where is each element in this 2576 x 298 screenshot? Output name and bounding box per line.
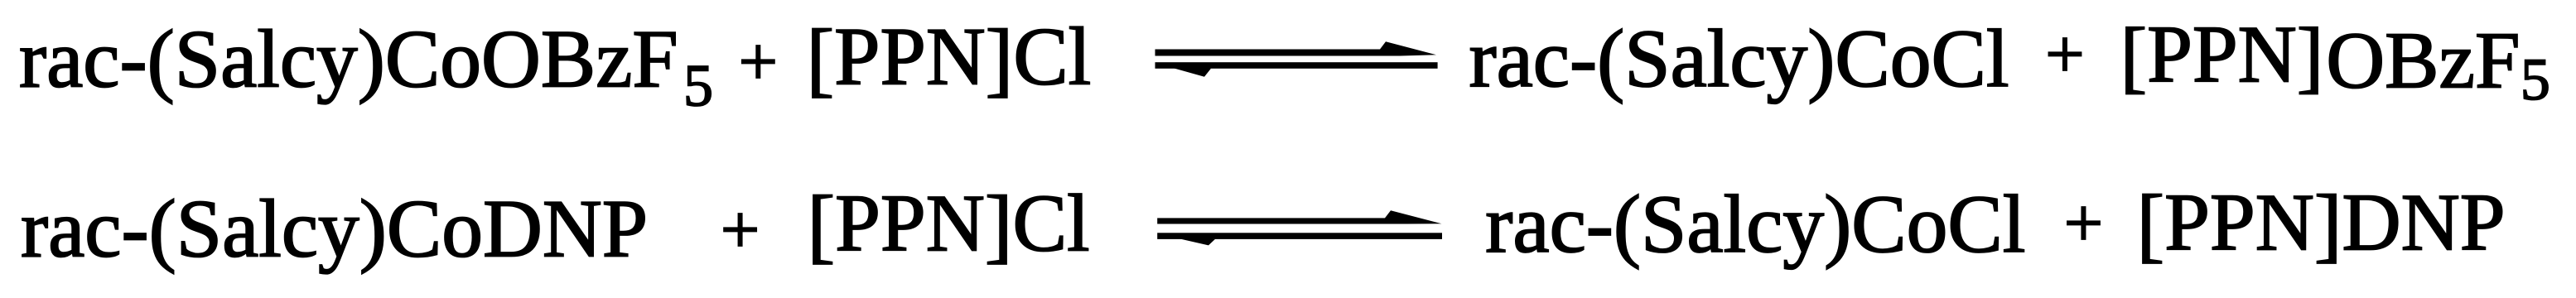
svg-text:[PPN]Cl: [PPN]Cl [808, 179, 1090, 272]
svg-text:rac-(Salcy)CoCl: rac-(Salcy)CoCl [1469, 12, 2009, 104]
svg-text:[PPN]Cl: [PPN]Cl [807, 11, 1092, 105]
svg-text:[PPN]DNP: [PPN]DNP [2137, 178, 2506, 271]
svg-text:rac-(Salcy)CoCl: rac-(Salcy)CoCl [1485, 178, 2025, 270]
svg-text:+: + [721, 192, 760, 269]
svg-text:+: + [739, 23, 778, 100]
svg-text:+: + [2045, 17, 2084, 94]
svg-text:[PPN]: [PPN] [2120, 10, 2323, 101]
svg-text:OBzF5: OBzF5 [2326, 17, 2549, 113]
svg-text:+: + [2064, 185, 2103, 262]
svg-text:rac-(Salcy)CoDNP: rac-(Salcy)CoDNP [21, 183, 648, 275]
svg-text:rac-(Salcy)CoOBzF5: rac-(Salcy)CoOBzF5 [19, 13, 713, 119]
